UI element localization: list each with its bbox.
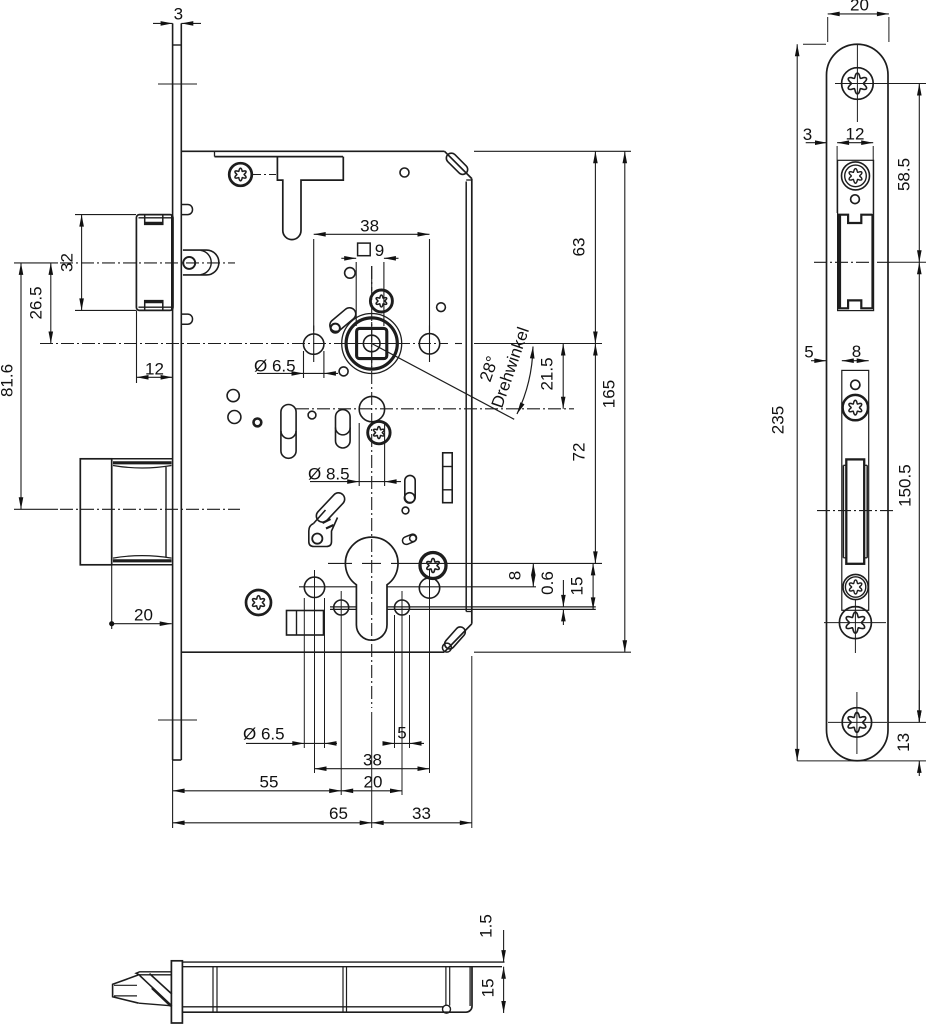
screw A leader (dash-dot) [253,174,276,176]
small hole above follower [345,268,356,279]
dimension 3 front [806,142,827,144]
svg-text:150.5: 150.5 [896,464,915,507]
mid torx screw [839,607,871,639]
small hole top right [400,168,409,177]
svg-text:65: 65 [329,804,348,823]
latch bolt section bevel [140,975,172,1006]
latch centerline front [814,261,890,263]
latch bolt section tip [113,975,139,1003]
svg-text:20: 20 [850,0,869,15]
svg-text:3: 3 [174,5,183,24]
angle leader 28deg [372,344,515,420]
svg-text:63: 63 [570,238,589,257]
small hole above cyl screw [851,380,860,389]
right guide slot [405,475,415,502]
torx screw E [246,590,271,615]
svg-text:165: 165 [600,380,619,408]
dimension 65 [371,712,373,828]
pin hole in spring slot [331,324,340,333]
dimension 8 right [532,563,534,586]
small hole right of follower [437,303,446,312]
dimension 15 bottom [503,967,505,1013]
svg-text:20: 20 [134,606,153,625]
lock case outline [181,150,444,152]
svg-text:12: 12 [846,124,865,143]
deadbolt front [846,459,864,563]
small hole below right slot [402,507,409,514]
follower center vertical tick [371,266,373,291]
small circles left cluster [227,390,239,402]
svg-text:9: 9 [375,241,384,260]
cylinder screw hole left (d5) [334,600,349,615]
small rectangle part [287,611,324,636]
svg-text:13: 13 [894,733,913,752]
top-right corner flap [444,151,469,176]
follower center hole [363,335,380,352]
screw with ring front [843,574,868,599]
dimension 38 lower [315,768,430,770]
faceplate side view (3mm strip) [172,23,174,760]
left guide slot [281,405,296,459]
faceplate front outline [827,44,889,760]
latch bolt head [136,215,173,311]
hole d8.5 [359,396,384,421]
cover plate edge pair (0.6) [330,606,356,608]
bottom-right corner flap [443,625,468,651]
handle screw hole right (d6.5) [419,334,439,354]
svg-text:5: 5 [397,724,406,743]
dimension 21.5 [562,344,564,409]
svg-text:55: 55 [260,773,279,792]
dimension 165 [474,651,631,653]
top torx screw [842,68,874,100]
svg-text:72: 72 [570,443,589,462]
bottom-right flap rivet [442,643,451,652]
dimension 12 [136,310,138,383]
change lever detail [314,490,347,524]
faceplate tab below latch [181,314,192,324]
torx screw B [370,290,392,312]
spring slot upper-left of follower [327,305,358,334]
svg-text:33: 33 [412,804,431,823]
svg-text:5: 5 [804,343,813,362]
faceplate break tick upper [158,83,197,85]
svg-text:81.6: 81.6 [0,364,17,397]
svg-text:Ø 8.5: Ø 8.5 [308,465,350,484]
vertical strip part [443,453,453,503]
dimension square 9 [358,243,371,256]
case section outline [182,966,502,968]
handle screw hole left (d6.5) [304,334,324,354]
case section divider 3 [445,967,447,1006]
dimension 235 [803,43,826,45]
follower bold ring [346,318,397,369]
dimension 55 [172,760,174,828]
dimension 38 top [314,233,430,235]
angle arc 28deg [517,347,533,415]
svg-text:0.6: 0.6 [538,571,557,595]
screw above latch [842,162,870,190]
svg-text:32: 32 [58,253,77,272]
deadbolt tail [80,459,111,565]
mid screw crosshair [854,600,856,653]
dimension 15 right [592,563,594,609]
latch pivot pin [183,257,195,269]
case section divider 2 [342,967,344,1013]
dimension d8.5 [358,423,360,486]
svg-text:15: 15 [568,577,587,596]
dimension 81.6 [20,263,22,509]
torx screw A [229,163,252,186]
small hole below left handle hole [339,367,348,376]
lock case lid joint line [215,156,344,158]
deadbolt centerline [14,508,58,510]
main horizontal centerline [40,343,448,345]
dimension 5 lower [394,615,396,748]
deadbolt centerline front [817,510,893,512]
cylinder screw front (bold) [843,395,868,420]
dimension 0.6 [562,580,564,607]
small bold hole left cluster [254,419,262,427]
cylinder profile hole [345,537,398,640]
dimension 20 front [828,13,889,15]
dimension 150.5 [888,721,926,723]
dimension 1.5 [503,930,505,962]
dimension 58.5 [881,83,926,85]
svg-text:15: 15 [479,978,498,997]
svg-text:Ø 6.5: Ø 6.5 [254,357,296,376]
dimension d6.5 lower [303,598,305,748]
fixing hole lower-left (d6.5) [304,577,324,597]
fixing hole lower-right (d6.5) [419,578,439,598]
auxiliary line y587 [299,586,356,588]
svg-text:26.5: 26.5 [27,286,46,319]
T-shaped hanger slot [277,157,343,240]
dimension 33 [471,656,473,828]
torx screw C [368,421,390,443]
torx screw D bold [420,553,446,579]
cylinder screw hole right (d5) [395,600,410,615]
dimension 5-8 front [811,360,826,362]
deadbolt head [112,458,173,460]
latch bolt front [839,215,873,309]
cylinder recess front [842,370,869,610]
svg-text:58.5: 58.5 [895,158,914,191]
faceplate bar section [171,961,182,1023]
latch tail pin [183,250,219,275]
follower outer ring [342,314,402,374]
hole d8.5 centerline [296,408,574,410]
middle guide slot [336,410,351,448]
latch guide notch bottom [145,301,163,311]
latch bolt section top face [136,972,171,975]
faceplate tab above latch [181,205,192,215]
svg-text:8: 8 [506,571,525,580]
svg-text:3: 3 [803,125,812,144]
dimension 32 [75,214,136,216]
follower square (9mm) [357,328,387,358]
svg-text:235: 235 [769,406,788,434]
svg-text:38: 38 [360,217,379,236]
dimension 3 (faceplate thickness) [153,22,173,24]
dimension 20 lower [341,790,402,792]
cylinder horizontal centerline [328,562,352,564]
svg-text:1.5: 1.5 [477,914,496,938]
case section divider 1 [212,967,214,1013]
tilted pin slot [401,533,417,546]
latch guide notch top [145,215,163,225]
dimension 72 [594,344,596,564]
latch recess front [838,160,874,310]
svg-text:Ø 6.5: Ø 6.5 [243,725,285,744]
lower fixing hole centerline verticals [314,570,316,773]
latch centerline [14,262,58,264]
bottom screw crosshair [856,692,858,754]
svg-text:21.5: 21.5 [538,357,557,390]
small hole left of d8.5 [308,411,316,419]
dimension 26.5 [50,263,52,344]
svg-text:12: 12 [145,360,164,379]
dimension d6.5 upper [303,351,305,378]
cylinder vertical centerline [371,266,373,708]
small hole above latch [851,195,860,204]
bottom torx screw [842,708,871,737]
svg-text:20: 20 [364,773,383,792]
top screw crosshair [856,45,858,122]
dimension 63 [474,150,631,152]
faceplate break tick lower [158,719,197,721]
svg-text:8: 8 [852,342,861,361]
dimension 13 [918,690,920,722]
lock case inner right wall [465,182,467,612]
dimension 20 left (deadbolt throw) [111,565,113,629]
svg-text:38: 38 [363,751,382,770]
